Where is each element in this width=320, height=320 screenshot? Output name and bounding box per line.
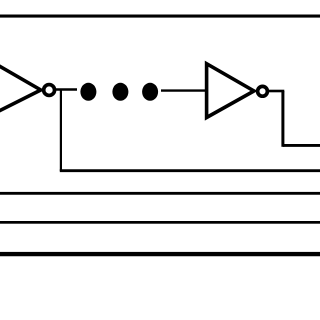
inverter U2 output bubble [258, 86, 268, 96]
wire: feedback vertical segment from U1 output node [60, 90, 62, 172]
wire: feedback horizontal segment to right edge [60, 169, 320, 172]
wire: ellipsis to U2 input [161, 89, 207, 91]
wire: U2 output vertical drop [281, 91, 284, 147]
wire: top horizontal rule of figure frame [0, 15, 320, 18]
wire: U1 output to ellipsis [56, 88, 77, 90]
inverter U2 [207, 64, 254, 118]
ellipsis dot 1 (omitted inverter stages) [80, 83, 96, 101]
ellipsis dot 3 (omitted inverter stages) [142, 83, 158, 101]
ellipsis dot 2 (omitted inverter stages) [112, 83, 128, 101]
wire: full-width horizontal rule 3 (thick bottom rule) [0, 252, 320, 256]
inverter U1 output bubble [44, 85, 55, 96]
wire: full-width horizontal rule 2 below figure [0, 221, 320, 224]
wire: U2 output horizontal stub [269, 90, 284, 93]
wire: full-width horizontal rule 1 below figure [0, 192, 320, 195]
wire: U2 output to right edge [283, 144, 320, 147]
inverter U1 (left, clipped by figure edge) [0, 62, 41, 115]
